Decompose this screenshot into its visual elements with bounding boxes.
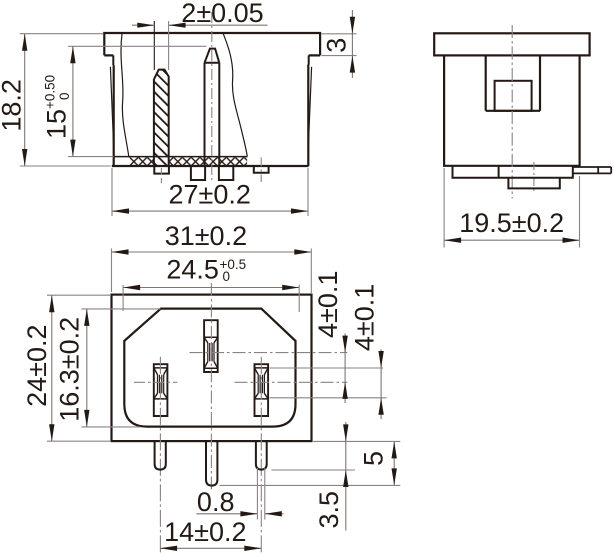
left step	[112, 55, 114, 65]
front view outer rectangle	[112, 295, 312, 442]
earth pin tip chamfer	[205, 49, 220, 63]
dim 2±0.05 extension lines	[153, 21, 155, 70]
svg-text:0: 0	[57, 92, 72, 100]
dim 16.3±0.2 extension lines	[81, 309, 160, 427]
dim 24.5 extension lines	[123, 285, 299, 312]
housing flange (view 1)	[104, 33, 320, 55]
dim 3 extension lines	[322, 34, 357, 56]
left break (wavy) line	[121, 34, 129, 157]
svg-text:2±0.05: 2±0.05	[181, 0, 263, 28]
dim 27±0.2 extension lines	[112, 168, 308, 216]
left slot centerline	[159, 357, 161, 553]
label 15 +0.50/0	[41, 75, 72, 139]
dim 18.2 extension lines	[20, 34, 111, 166]
vertical centerline	[511, 25, 513, 199]
right slot horizontal centerline	[235, 381, 348, 383]
right slot funnel extension lines	[270, 368, 387, 398]
left wall draft taper line	[110, 67, 113, 148]
left solder pin	[155, 442, 166, 470]
svg-text:4±0.1: 4±0.1	[313, 271, 343, 338]
dim 0.8 extension lines	[257, 468, 264, 520]
dim 0.8 dimension line	[196, 513, 283, 515]
inner box	[495, 81, 532, 111]
side view flange	[434, 33, 589, 55]
secondary centerline	[533, 162, 535, 192]
dim 24±0.2 extension lines	[47, 295, 111, 441]
mounting tab 1	[191, 166, 205, 180]
dim 3 dimension line	[351, 10, 353, 78]
right break (wavy) line	[223, 34, 247, 157]
dim 4±0.1 (second) dimension line	[380, 350, 382, 420]
left slot horizontal centerline	[134, 381, 177, 383]
svg-text:0: 0	[223, 269, 231, 284]
dim 19.5±0.2 dimension line	[444, 239, 579, 241]
dim 18.2 dimension line	[24, 34, 26, 166]
dim 16.3±0.2 dimension line	[86, 309, 88, 427]
dim 24±0.2 dimension line	[51, 295, 53, 441]
right small tab	[254, 166, 269, 173]
svg-text:19.5±0.2: 19.5±0.2	[459, 208, 564, 238]
svg-text:24.5: 24.5	[166, 254, 219, 284]
earth pin centerline	[211, 12, 213, 183]
view vertical centerline	[210, 283, 212, 492]
socket recess outline	[124, 309, 295, 427]
svg-text:14±0.2: 14±0.2	[164, 517, 246, 547]
plate divider	[498, 166, 500, 178]
live pin centerline	[160, 168, 162, 183]
right tab centerline	[260, 158, 262, 183]
dim 15 floor extension	[68, 156, 114, 158]
side view body	[444, 55, 579, 165]
dim 31±0.2 dimension line	[112, 251, 312, 253]
dim 24.5 dimension line	[123, 287, 299, 289]
dim 15 dimension line	[72, 46, 74, 156]
lower step	[508, 178, 559, 189]
svg-text:4±0.1: 4±0.1	[350, 284, 380, 351]
svg-text:31±0.2: 31±0.2	[165, 221, 247, 251]
dim 3.5 extension line	[272, 469, 356, 471]
mounting tab 2	[219, 166, 233, 180]
svg-text:18.2: 18.2	[0, 79, 27, 132]
right step	[308, 55, 310, 64]
dim 15 extension line (pin tip)	[68, 45, 206, 47]
right solder tab	[573, 167, 611, 173]
floor top edge (section)	[114, 156, 248, 158]
right (line) slot	[255, 364, 269, 416]
body bottom line	[112, 165, 309, 167]
dim 14±0.2 dimension line	[160, 547, 261, 549]
svg-text:24±0.2: 24±0.2	[22, 325, 52, 407]
svg-text:0.8: 0.8	[197, 487, 235, 517]
dim 19.5±0.2 extension lines	[444, 168, 579, 248]
mounting plate	[453, 166, 573, 178]
left wall	[113, 65, 115, 166]
svg-text:+0.50: +0.50	[43, 75, 58, 109]
dim 27±0.2 dimension line	[112, 210, 308, 212]
right wall draft taper line	[308, 67, 311, 148]
center solder pin	[206, 442, 217, 486]
dim 31±0.2 extension lines	[112, 249, 312, 294]
svg-text:15: 15	[41, 109, 71, 139]
svg-text:16.3±0.2: 16.3±0.2	[55, 317, 85, 422]
inner channel walls	[486, 55, 540, 110]
svg-text:27±0.2: 27±0.2	[169, 180, 251, 210]
svg-text:5: 5	[358, 451, 388, 466]
live pin solder tab	[154, 166, 169, 174]
svg-text:3.5: 3.5	[314, 491, 344, 529]
dim 2±0.05 dimension line	[132, 24, 268, 26]
earth slot horizontal centerline	[190, 352, 348, 354]
live pin (sectioned, hatched)	[154, 70, 169, 166]
dim 3.5 dimension line	[345, 422, 347, 531]
dim 5 dimension line	[393, 441, 395, 485]
center (earth) slot, mirrored	[204, 320, 218, 372]
left (neutral) slot	[154, 364, 168, 416]
hatched floor (cross-section)	[130, 157, 154, 165]
earth pin body	[205, 63, 220, 166]
svg-text:3: 3	[322, 38, 352, 53]
right solder pin	[256, 442, 267, 470]
dim 4±0.1 (first) dimension line	[344, 334, 346, 404]
right wall	[307, 65, 309, 167]
right slot centerline	[260, 357, 262, 553]
dim 5 extension lines	[220, 441, 401, 485]
